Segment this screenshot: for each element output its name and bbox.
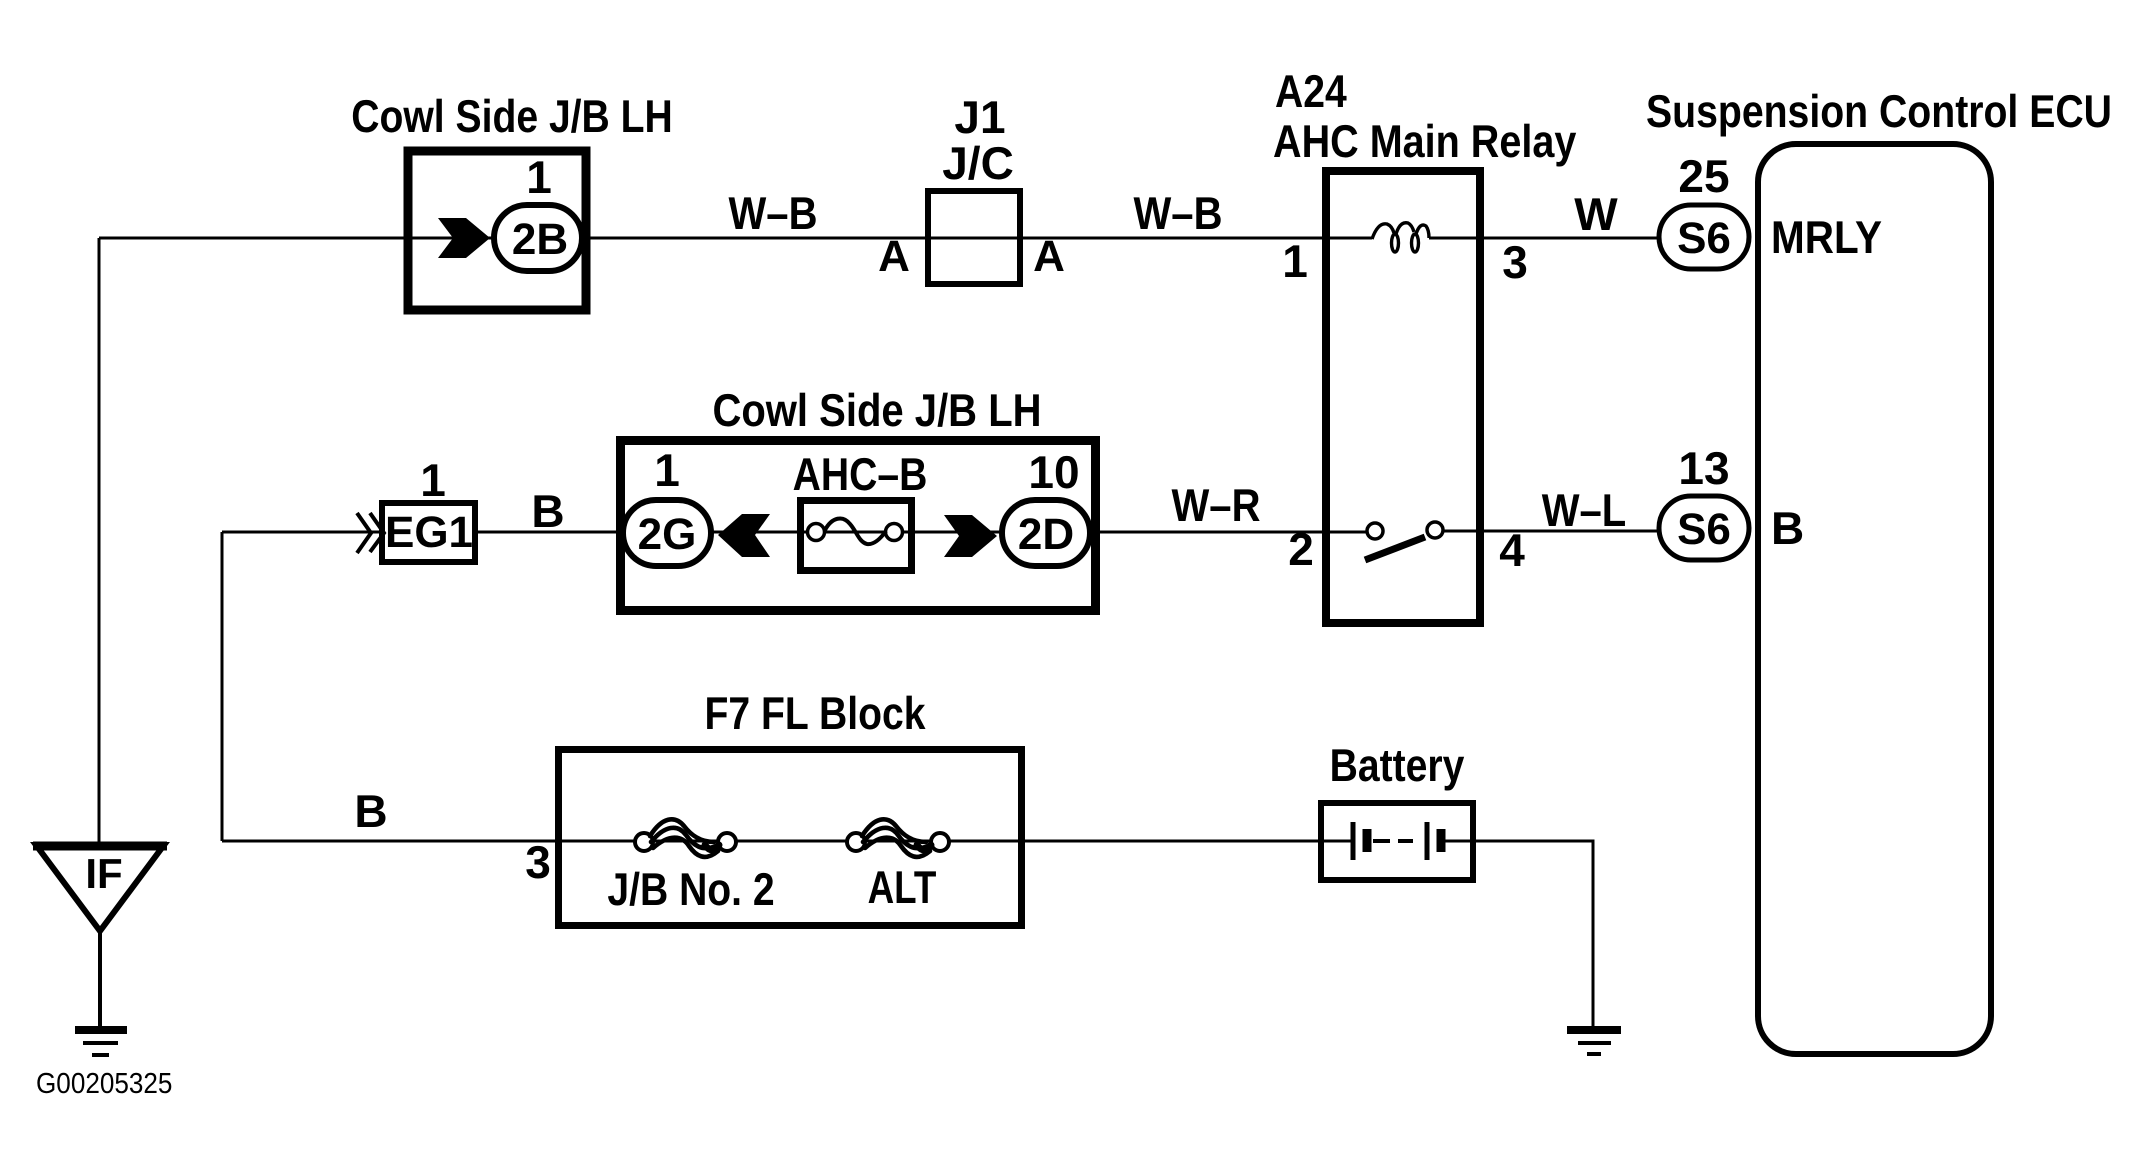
ECU connector oval S6 pin 25 <box>1659 205 1749 269</box>
svg-text:W–B: W–B <box>1134 187 1223 239</box>
battery cell short plate left <box>1363 829 1372 852</box>
junction box J1 J/C <box>928 191 1020 284</box>
wire W-L from relay switch to ECU pin 13 <box>1442 530 1658 533</box>
arrow pointing left into 2G <box>718 514 770 557</box>
coil of relay A24 <box>1372 223 1429 252</box>
junction block box Cowl Side J/B LH (2G/2D) <box>621 441 1096 611</box>
svg-text:Battery: Battery <box>1330 739 1465 791</box>
ECU box Suspension Control ECU <box>1758 144 1991 1054</box>
svg-text:EG1: EG1 <box>385 508 473 557</box>
svg-text:1: 1 <box>654 444 680 496</box>
fusible link J/B No.2 ribbon element <box>650 819 719 857</box>
battery cell long plate right <box>1425 822 1430 860</box>
arrow pointing right into 2D <box>944 515 997 557</box>
svg-text:W–B: W–B <box>729 187 818 239</box>
svg-text:2: 2 <box>1288 523 1314 575</box>
svg-text:3: 3 <box>525 836 551 888</box>
svg-text:IF: IF <box>85 850 122 897</box>
svg-text:13: 13 <box>1678 442 1729 494</box>
battery box <box>1321 803 1473 880</box>
connector oval 2D <box>1002 500 1090 566</box>
wire vertical from EG1 row down to battery row <box>221 532 224 841</box>
fusible link J/B No.2 contact circle right <box>718 833 736 851</box>
battery cell short plate right <box>1437 829 1446 852</box>
relay switch contact circle left <box>1367 523 1383 539</box>
fuse block box F7 FL Block <box>559 750 1022 926</box>
svg-text:25: 25 <box>1678 150 1729 202</box>
fusible link ALT contact circle right <box>931 833 949 851</box>
ECU connector oval S6 pin 13 <box>1659 496 1749 560</box>
fuse AHC-B element squiggle <box>825 518 886 544</box>
double chevron into EG1 <box>357 513 384 553</box>
fusible link J/B No.2 contact circle left <box>635 833 653 851</box>
svg-text:Cowl Side J/B LH: Cowl Side J/B LH <box>712 384 1041 436</box>
svg-text:B: B <box>354 785 387 837</box>
svg-text:S6: S6 <box>1677 505 1731 554</box>
wire from battery to ground drop <box>1441 841 1593 1028</box>
svg-text:W–R: W–R <box>1172 479 1261 531</box>
svg-text:2G: 2G <box>638 510 697 559</box>
svg-text:2B: 2B <box>512 215 568 264</box>
svg-text:J1: J1 <box>954 91 1005 143</box>
svg-text:4: 4 <box>1499 524 1525 576</box>
arrow into connector 2B <box>438 218 490 258</box>
connector box EG1 <box>382 503 475 562</box>
svg-text:W–L: W–L <box>1542 484 1626 536</box>
fuse AHC-B contact circle left <box>808 524 825 541</box>
wire B bottom run from corner to battery <box>222 840 1353 843</box>
fuse AHC-B contact circle right <box>886 524 903 541</box>
wire from IF triangle to ground <box>98 931 102 1028</box>
svg-text:B: B <box>1771 502 1804 554</box>
wire left vertical drop to IF ground <box>98 238 101 845</box>
fusible link ALT contact circle left <box>847 833 865 851</box>
svg-text:2D: 2D <box>1018 510 1074 559</box>
wire B middle run from corner to relay switch <box>222 531 1368 534</box>
svg-text:A24: A24 <box>1275 65 1347 117</box>
connector oval 2B <box>494 205 582 271</box>
svg-text:1: 1 <box>526 151 552 203</box>
IF ground triangle top bar <box>33 842 167 851</box>
wire W from relay coil to ECU pin 25 <box>1429 237 1658 240</box>
svg-text:A: A <box>1033 232 1065 281</box>
svg-text:3: 3 <box>1502 236 1528 288</box>
svg-text:J/C: J/C <box>942 137 1014 189</box>
svg-text:Suspension Control ECU: Suspension Control ECU <box>1646 85 2112 137</box>
relay box A24 AHC Main Relay <box>1326 171 1480 623</box>
ground symbol right (battery) <box>1567 1030 1621 1054</box>
svg-text:1: 1 <box>420 454 446 506</box>
IF ground triangle <box>36 845 164 931</box>
battery cell long plate left <box>1351 822 1356 860</box>
relay switch blade <box>1365 537 1425 560</box>
svg-text:S6: S6 <box>1677 214 1731 263</box>
fuse box AHC-B <box>801 501 912 571</box>
svg-text:AHC–B: AHC–B <box>793 448 928 500</box>
svg-text:Cowl Side J/B LH: Cowl Side J/B LH <box>351 90 673 142</box>
svg-text:G00205325: G00205325 <box>36 1068 172 1100</box>
svg-text:ALT: ALT <box>868 861 937 913</box>
connector box Cowl Side J/B LH (2B) <box>408 151 586 310</box>
svg-text:1: 1 <box>1282 235 1308 287</box>
fusible link ALT ribbon element <box>862 819 931 857</box>
svg-text:10: 10 <box>1028 446 1079 498</box>
relay switch contact circle right <box>1427 522 1443 538</box>
svg-text:A: A <box>878 232 910 281</box>
svg-text:MRLY: MRLY <box>1771 211 1882 263</box>
connector oval 2G <box>623 500 711 566</box>
svg-text:J/B No. 2: J/B No. 2 <box>607 863 774 915</box>
svg-text:AHC Main Relay: AHC Main Relay <box>1273 115 1577 167</box>
svg-text:B: B <box>531 485 564 537</box>
battery dashed link <box>1373 839 1413 843</box>
ground symbol left <box>75 1030 127 1055</box>
svg-text:W: W <box>1574 188 1618 240</box>
wire W-B top run from left junction to relay coil <box>99 237 1372 240</box>
svg-text:F7 FL Block: F7 FL Block <box>705 687 926 739</box>
